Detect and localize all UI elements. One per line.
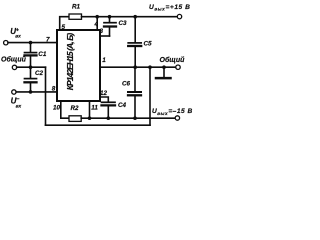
capacitor C3	[104, 17, 116, 36]
capacitor C4	[102, 102, 116, 118]
svg-text:C1: C1	[38, 51, 47, 58]
ground	[156, 67, 171, 78]
terminal common output	[176, 65, 180, 69]
wire Uin- to pin 8	[16, 91, 57, 93]
resistor R2	[69, 116, 81, 122]
wire common left vertical leg	[45, 67, 47, 125]
svg-text:12: 12	[100, 90, 108, 97]
wire Uin+ to pin 7	[8, 42, 57, 44]
node junction C2 / -in wire	[29, 90, 33, 94]
svg-text:R2: R2	[71, 105, 80, 112]
terminal common input	[12, 65, 16, 69]
node junction C1 / +in wire	[29, 41, 33, 45]
wire pin 4 stub	[96, 17, 98, 30]
node junction C5 line / top rail	[133, 15, 137, 19]
IC U1 box KR142EN15	[57, 30, 100, 101]
wire common right vertical leg	[149, 67, 151, 125]
node junction C4 / -15V rail	[107, 116, 111, 120]
terminal Uout +15V	[177, 14, 181, 18]
node junction C5-C6 / common rail	[133, 65, 137, 69]
svg-text:вх: вх	[16, 105, 22, 110]
resistor R1	[69, 14, 82, 19]
svg-text:Общий: Общий	[160, 56, 186, 64]
wire common left to corner	[17, 66, 46, 68]
svg-text:4: 4	[94, 21, 99, 28]
terminal Uin+	[4, 41, 8, 45]
wire pin 3 to C3	[100, 35, 110, 37]
svg-text:1: 1	[102, 57, 106, 64]
node junction ground / common rail	[162, 65, 166, 69]
svg-text:вх: вх	[15, 35, 21, 40]
svg-text:C2: C2	[35, 70, 44, 77]
terminal Uin-	[12, 90, 16, 94]
svg-text:C6: C6	[122, 81, 131, 88]
wire pin 5 stub up to top rail	[60, 17, 69, 30]
svg-text:7: 7	[46, 36, 50, 43]
wire -15V rail from R2 to terminal	[81, 117, 175, 119]
capacitor C5	[128, 17, 141, 67]
svg-text:C4: C4	[118, 102, 127, 109]
wire top rail from R1 to +15V terminal	[82, 16, 178, 18]
node junction C6 / -15V rail	[133, 116, 137, 120]
svg-text:C3: C3	[119, 20, 128, 27]
svg-text:+: +	[16, 27, 19, 33]
wire common bottom bus	[46, 124, 151, 126]
terminal Uout -15V	[175, 116, 179, 120]
svg-text:11: 11	[91, 105, 98, 112]
svg-text:8: 8	[52, 85, 56, 92]
capacitor C2	[25, 67, 37, 92]
capacitor C6	[128, 67, 141, 118]
node junction R1 rail / pin4	[95, 15, 99, 19]
svg-text:10: 10	[53, 105, 61, 112]
wire pin 10 stub	[61, 101, 69, 118]
node junction pin11 / -15V rail	[88, 116, 92, 120]
svg-text:R1: R1	[72, 4, 81, 11]
wire pin 12 to C4	[100, 97, 108, 101]
svg-text:C5: C5	[144, 41, 153, 48]
wire pin 11 stub	[89, 101, 91, 118]
svg-text:КР142ЕН15 (А, Б): КР142ЕН15 (А, Б)	[65, 33, 75, 91]
node junction bottom bus / common rail	[148, 65, 152, 69]
capacitor C1	[25, 43, 37, 68]
node junction C1/C2	[29, 65, 33, 69]
wire pin 1 to common output rail	[100, 66, 176, 68]
svg-text:Общий: Общий	[1, 56, 27, 64]
node junction C3 / top rail	[108, 15, 112, 19]
